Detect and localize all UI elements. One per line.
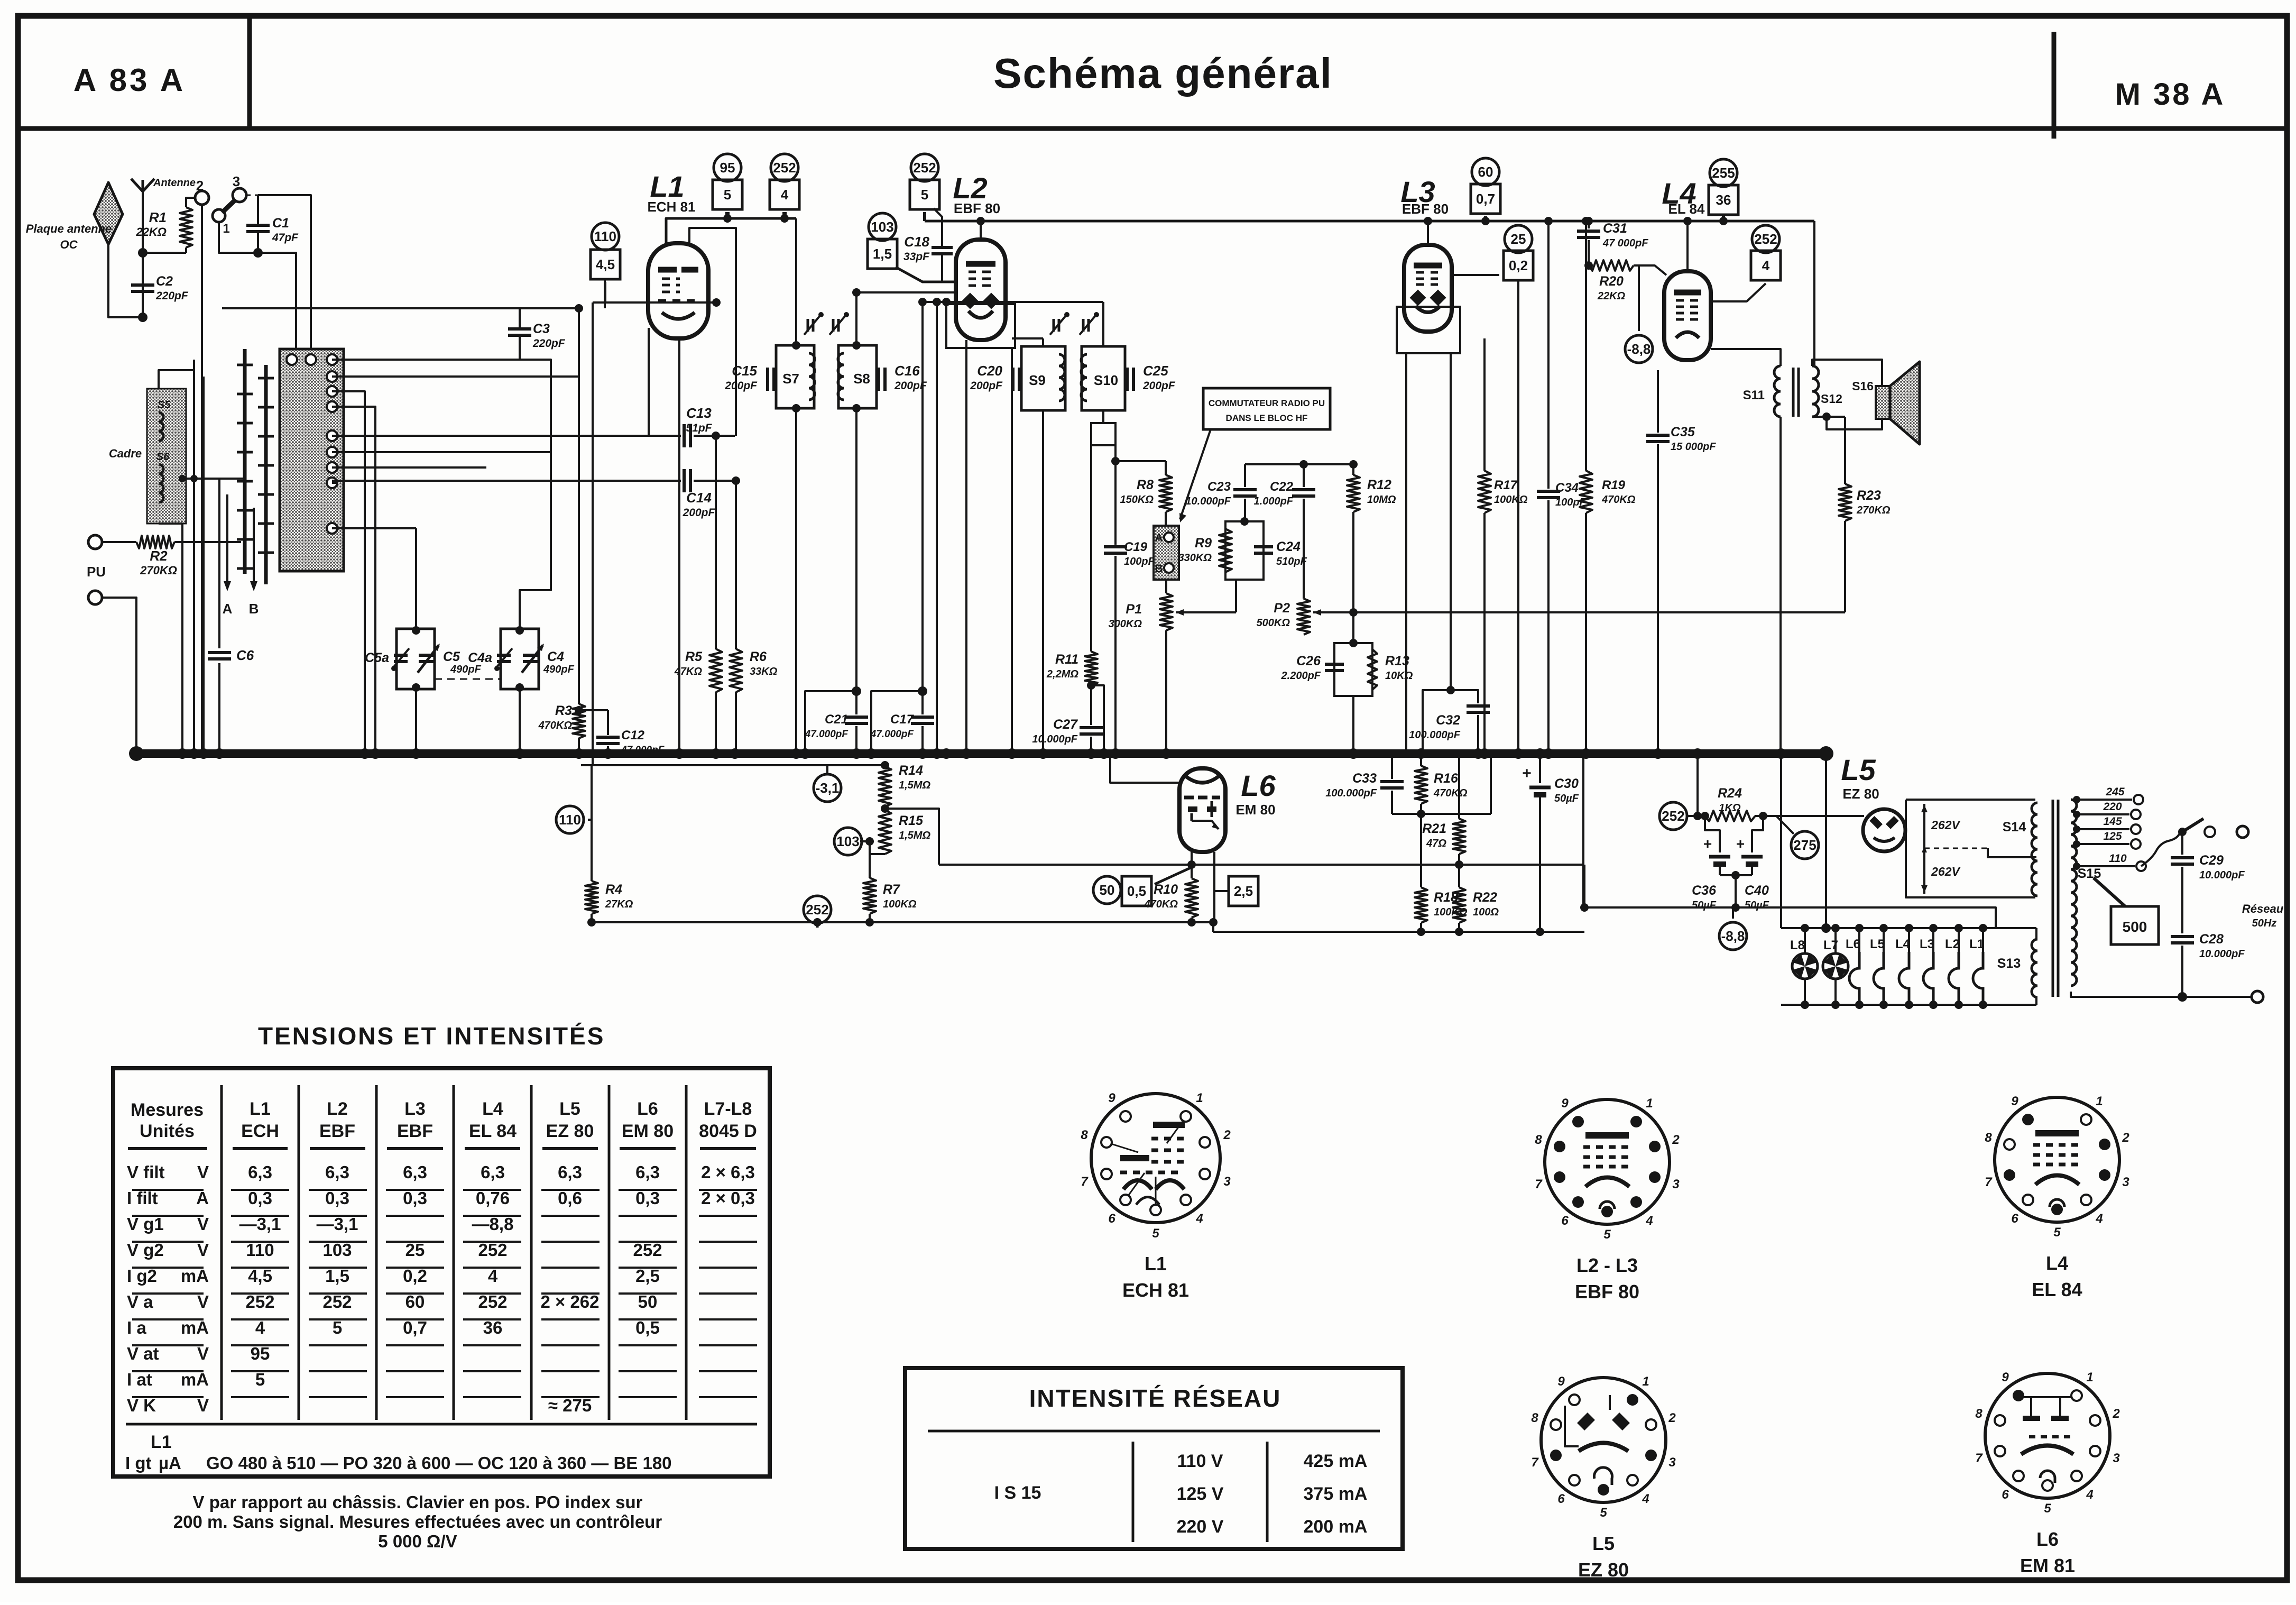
svg-text:EBF 80: EBF 80 xyxy=(1575,1281,1639,1303)
svg-text:0,2: 0,2 xyxy=(403,1266,427,1286)
svg-text:9: 9 xyxy=(1561,1096,1569,1111)
svg-text:6,3: 6,3 xyxy=(248,1162,272,1182)
svg-text:25: 25 xyxy=(405,1240,425,1260)
svg-text:V par rapport au châssis. Clav: V par rapport au châssis. Clavier en pos… xyxy=(193,1492,643,1512)
svg-text:C33: C33 xyxy=(1352,771,1377,786)
resistor R1 22K xyxy=(180,207,192,247)
svg-text:8: 8 xyxy=(1975,1407,1983,1421)
trimmer S9 xyxy=(1053,319,1055,332)
wire S10 bottom to detector loop xyxy=(1102,410,1104,423)
svg-text:27KΩ: 27KΩ xyxy=(605,898,633,910)
svg-text:103: 103 xyxy=(322,1240,352,1260)
svg-text:110: 110 xyxy=(246,1240,274,1260)
svg-text:500KΩ: 500KΩ xyxy=(1257,617,1290,629)
resistor R3 470K xyxy=(573,704,585,738)
svg-text:2,5: 2,5 xyxy=(635,1266,660,1286)
svg-text:60: 60 xyxy=(1478,164,1493,180)
svg-text:-8,8: -8,8 xyxy=(1627,341,1651,357)
svg-text:L8: L8 xyxy=(1790,938,1805,952)
wire speaker bottom xyxy=(1827,417,1882,429)
header divider left vertical xyxy=(247,18,252,127)
tube L2 EBF 80 xyxy=(956,240,1006,340)
wire osc to C4 box xyxy=(520,360,551,629)
svg-text:1.000pF: 1.000pF xyxy=(1254,496,1294,507)
wire plaque antenne down xyxy=(108,244,143,317)
capacitor C31 47.000pF xyxy=(1588,221,1590,228)
svg-text:L5: L5 xyxy=(1592,1533,1615,1554)
wire L6 anode from bus region xyxy=(1110,754,1179,783)
circled -8,8 (bias tap) xyxy=(1732,907,1734,919)
svg-text:I gt: I gt xyxy=(125,1453,151,1473)
svg-text:L1: L1 xyxy=(650,170,684,203)
svg-text:1: 1 xyxy=(1196,1091,1203,1105)
wires cadre box to bus xyxy=(181,524,183,754)
svg-text:9: 9 xyxy=(2002,1370,2009,1384)
svg-text:C32: C32 xyxy=(1436,713,1460,728)
svg-text:252: 252 xyxy=(322,1292,352,1311)
svg-text:10KΩ: 10KΩ xyxy=(1385,670,1413,682)
capacitor C17 47.000pF loop xyxy=(871,691,923,754)
heater hooks L6..L1 xyxy=(1849,952,1859,1005)
resistor R21 47ohm xyxy=(1458,754,1460,819)
svg-text:1: 1 xyxy=(1642,1374,1649,1389)
svg-text:S5: S5 xyxy=(158,399,171,411)
wire S7 bottom to bus xyxy=(795,408,797,754)
svg-text:R12: R12 xyxy=(1367,478,1391,492)
circled 103 (bias) xyxy=(834,828,862,855)
wire grid2 x1227 xyxy=(648,328,650,436)
svg-text:47pF: 47pF xyxy=(272,232,299,244)
svg-text:Plaque antenne: Plaque antenne xyxy=(26,222,112,235)
svg-text:R23: R23 xyxy=(1857,488,1881,503)
trimmer S10 xyxy=(1082,319,1085,332)
svg-text:L5: L5 xyxy=(1870,937,1885,951)
svg-text:EM 80: EM 80 xyxy=(622,1121,674,1141)
wire 36 down to rail xyxy=(1722,216,1725,221)
capacitor C2 220pF xyxy=(131,283,154,287)
resistor R20 22K xyxy=(1589,260,1634,271)
capacitor C32 100.000pF loop xyxy=(1423,690,1478,754)
svg-text:C5: C5 xyxy=(443,649,460,664)
box C26 2.200pF with R13 10K xyxy=(1334,643,1372,696)
svg-text:L2 - L3: L2 - L3 xyxy=(1576,1254,1638,1276)
wire C5 box stubs xyxy=(415,528,417,629)
svg-text:EBF 80: EBF 80 xyxy=(1402,201,1449,217)
circled 25 xyxy=(1505,225,1532,253)
capacitor C35 15.000pF xyxy=(1657,370,1659,433)
svg-text:C35: C35 xyxy=(1671,425,1695,439)
svg-text:S15: S15 xyxy=(2078,866,2101,881)
svg-text:200 mA: 200 mA xyxy=(1304,1517,1368,1537)
wire keyboard horizontals xyxy=(186,478,245,480)
resistor R11 2,2M xyxy=(1090,445,1092,652)
capacitor C6 xyxy=(218,478,220,648)
box 0,7 xyxy=(1471,184,1500,214)
circled -3,1 xyxy=(826,765,828,774)
svg-text:100KΩ: 100KΩ xyxy=(883,898,917,910)
capacitor C34 100pF xyxy=(1547,221,1550,489)
svg-text:10.000pF: 10.000pF xyxy=(1185,496,1231,507)
wire S9 bottom to bus xyxy=(1042,410,1044,754)
svg-text:C28: C28 xyxy=(2199,932,2224,947)
svg-text:510pF: 510pF xyxy=(1276,556,1307,567)
svg-text:1: 1 xyxy=(2096,1094,2103,1108)
tube L5 EZ 80 rectifier xyxy=(1863,809,1905,851)
svg-text:L6: L6 xyxy=(1846,937,1860,951)
svg-text:L1: L1 xyxy=(1969,937,1984,951)
svg-text:C21: C21 xyxy=(825,712,848,727)
svg-text:L1: L1 xyxy=(1145,1253,1167,1274)
dial lamp rail bottom xyxy=(1781,1004,2036,1006)
capacitor C28 10.000pF xyxy=(2171,935,2194,938)
resistor R8 150K xyxy=(1165,461,1167,475)
svg-text:10.000pF: 10.000pF xyxy=(2199,948,2245,960)
svg-text:S13: S13 xyxy=(1997,956,2021,971)
svg-text:5: 5 xyxy=(333,1318,342,1337)
wire L2 box bottom xyxy=(946,304,1015,348)
svg-text:110 V: 110 V xyxy=(1177,1451,1223,1471)
svg-text:L4: L4 xyxy=(2046,1252,2068,1274)
S14 winding xyxy=(2032,803,2037,896)
svg-text:L3: L3 xyxy=(1920,937,1934,951)
table intensite column lines xyxy=(1132,1442,1135,1542)
svg-text:4: 4 xyxy=(1195,1212,1203,1226)
svg-text:100KΩ: 100KΩ xyxy=(1494,494,1528,506)
tube socket L5 EZ80 xyxy=(1541,1378,1666,1502)
svg-text:C17: C17 xyxy=(890,712,915,727)
wire x1506 anode to S7 xyxy=(795,218,797,345)
wire keyboard row 712 xyxy=(332,375,579,378)
svg-text:5: 5 xyxy=(1152,1226,1159,1241)
svg-text:4: 4 xyxy=(1645,1214,1653,1228)
svg-text:S6: S6 xyxy=(156,451,170,463)
circled 255 xyxy=(1710,159,1737,187)
svg-text:I at: I at xyxy=(127,1370,152,1389)
wire keyboard row 913 to C14 xyxy=(332,480,681,482)
svg-text:10.000pF: 10.000pF xyxy=(1032,733,1077,745)
svg-text:L6: L6 xyxy=(2036,1528,2059,1550)
svg-text:A 83 A: A 83 A xyxy=(73,62,186,98)
tube L1 ECH 81 xyxy=(648,243,708,338)
svg-text:0,3: 0,3 xyxy=(403,1188,427,1208)
svg-text:7: 7 xyxy=(1975,1451,1983,1465)
svg-text:5: 5 xyxy=(2044,1501,2051,1516)
capacitor C33 100.000pF xyxy=(1391,754,1393,779)
svg-text:50µF: 50µF xyxy=(1692,900,1717,911)
svg-text:EL 84: EL 84 xyxy=(469,1121,517,1141)
output transformer S12 winding xyxy=(1812,366,1819,417)
wire y872 detector rail xyxy=(1115,460,1166,462)
header divider horizontal xyxy=(18,126,2287,131)
wire L6 cathode legs xyxy=(1191,852,1193,878)
svg-text:C20: C20 xyxy=(977,363,1002,379)
wire S12 to speaker xyxy=(1812,360,1882,386)
wire L3 anode to rail xyxy=(1427,221,1429,245)
svg-text:A: A xyxy=(223,601,233,617)
svg-text:6: 6 xyxy=(2011,1212,2018,1226)
svg-text:5: 5 xyxy=(255,1370,265,1389)
svg-text:8: 8 xyxy=(1531,1411,1538,1425)
capacitor C15 200pF xyxy=(766,368,769,391)
keyboard contact rail right xyxy=(264,365,268,584)
resistor R18 100K xyxy=(1420,814,1422,887)
svg-text:490pF: 490pF xyxy=(450,664,482,675)
circled -8,8 (L4 grid bias) xyxy=(1625,335,1653,363)
svg-text:1,5: 1,5 xyxy=(873,246,892,262)
svg-text:L1: L1 xyxy=(250,1099,271,1119)
svg-text:—3,1: —3,1 xyxy=(317,1214,358,1234)
svg-text:110: 110 xyxy=(2109,852,2127,865)
box R9 330K with C24 510pF xyxy=(1225,521,1264,580)
wire y1744 to y1762 continuation xyxy=(1212,922,1214,932)
svg-text:C29: C29 xyxy=(2199,853,2224,868)
wire heater return y1744 xyxy=(592,921,1213,923)
svg-text:200pF: 200pF xyxy=(683,507,716,519)
svg-text:1,5MΩ: 1,5MΩ xyxy=(899,779,930,791)
svg-text:2: 2 xyxy=(2122,1131,2129,1145)
svg-text:6: 6 xyxy=(1561,1214,1569,1228)
svg-text:1: 1 xyxy=(2086,1370,2093,1384)
svg-text:A: A xyxy=(1155,532,1163,544)
wire bus drop x3211 xyxy=(1696,754,1699,816)
svg-text:S14: S14 xyxy=(2003,820,2026,834)
svg-text:B: B xyxy=(249,601,259,617)
svg-text:4: 4 xyxy=(255,1318,265,1337)
resistor R14 1,5M xyxy=(881,761,889,769)
wire PU terminal upper xyxy=(88,535,102,549)
svg-text:R2: R2 xyxy=(150,548,168,564)
capacitor C13 51pF xyxy=(683,424,686,447)
svg-text:-3,1: -3,1 xyxy=(816,780,840,796)
circled 60 xyxy=(1472,158,1499,186)
svg-text:0,7: 0,7 xyxy=(403,1318,427,1337)
svg-text:C3: C3 xyxy=(533,322,550,336)
circled 103 xyxy=(869,213,896,241)
svg-text:2,5: 2,5 xyxy=(1234,883,1253,899)
wire y1635 grid line xyxy=(1187,860,1196,869)
mains switch xyxy=(2178,828,2187,836)
svg-text:51pF: 51pF xyxy=(686,422,712,434)
svg-text:470KΩ: 470KΩ xyxy=(538,720,573,731)
wire L1 cathode down xyxy=(678,338,680,754)
svg-text:S16: S16 xyxy=(1852,379,1874,393)
svg-text:125: 125 xyxy=(2103,830,2122,842)
svg-text:mA: mA xyxy=(181,1266,209,1286)
resistor R6 33K xyxy=(735,481,737,649)
svg-text:15 000pF: 15 000pF xyxy=(1671,441,1716,453)
svg-text:OC: OC xyxy=(60,238,78,251)
wire L2 verticals to bus xyxy=(936,302,938,754)
box 4 xyxy=(770,180,799,209)
svg-text:1,5: 1,5 xyxy=(325,1266,349,1286)
svg-text:C5a: C5a xyxy=(365,650,389,665)
svg-text:200 m. Sans signal. Mesures ef: 200 m. Sans signal. Mesures effectuées a… xyxy=(173,1512,662,1531)
svg-text:6,3: 6,3 xyxy=(325,1162,349,1182)
svg-text:7: 7 xyxy=(1535,1177,1543,1191)
svg-text:6,3: 6,3 xyxy=(403,1162,427,1182)
svg-text:PU: PU xyxy=(87,564,106,580)
capacitor C22 1.000pF xyxy=(1303,464,1305,487)
svg-text:C23: C23 xyxy=(1207,480,1231,494)
wire 4 to L4 screen xyxy=(1712,300,1747,302)
wire keyboard row 855 long xyxy=(332,451,551,453)
svg-text:L6: L6 xyxy=(1241,769,1276,802)
svg-text:EM 80: EM 80 xyxy=(1235,802,1275,818)
circled 275 xyxy=(1791,831,1819,859)
svg-text:V: V xyxy=(197,1396,209,1415)
svg-text:Cadre: Cadre xyxy=(109,447,142,460)
wire keyboard row 740 xyxy=(332,391,365,754)
wire C1 node right and down to keyboard xyxy=(258,253,296,360)
wire keyboard row 824 to C13 xyxy=(332,435,681,437)
wire 0,2 to L3 grid xyxy=(1452,274,1499,276)
wire B arrow xyxy=(253,508,255,586)
wire keyboard 913 stub xyxy=(332,482,338,484)
svg-text:4: 4 xyxy=(488,1266,498,1286)
svg-text:470KΩ: 470KΩ xyxy=(1433,787,1468,799)
wire R1 top to contact 2 xyxy=(186,198,195,207)
wire 0,5 diagonal xyxy=(1155,867,1192,884)
svg-text:5: 5 xyxy=(921,187,928,203)
svg-text:C18: C18 xyxy=(904,234,929,250)
svg-text:2: 2 xyxy=(2112,1407,2120,1421)
svg-text:4,5: 4,5 xyxy=(596,256,615,272)
svg-text:+: + xyxy=(1522,765,1532,782)
svg-text:Unités: Unités xyxy=(140,1121,195,1141)
wire y1716 return xyxy=(1583,907,1996,928)
svg-text:150KΩ: 150KΩ xyxy=(1120,494,1154,506)
svg-text:22KΩ: 22KΩ xyxy=(1597,290,1626,302)
svg-text:50µF: 50µF xyxy=(1745,900,1769,911)
capacitor C19 100pF xyxy=(1114,461,1117,545)
table intensite title underline xyxy=(928,1430,1380,1433)
svg-text:103: 103 xyxy=(836,833,859,849)
box 5 xyxy=(713,180,742,209)
svg-text:200pF: 200pF xyxy=(970,380,1003,392)
wire bus drop x2995 xyxy=(1582,754,1584,907)
IF transformer S8 box xyxy=(838,345,877,408)
HT secondary box S14 xyxy=(1906,799,2035,801)
svg-text:4: 4 xyxy=(1762,258,1770,273)
IF transformer S10 box xyxy=(1082,346,1125,410)
resistor R17 100K xyxy=(1483,338,1486,471)
svg-text:R6: R6 xyxy=(750,649,767,664)
svg-text:+: + xyxy=(1736,836,1745,852)
wire antenna mast xyxy=(142,191,144,317)
svg-text:47Ω: 47Ω xyxy=(1426,838,1446,849)
wire keyboard row 999 to C5 box xyxy=(332,527,416,529)
svg-text:COMMUTATEUR RADIO PU: COMMUTATEUR RADIO PU xyxy=(1209,398,1325,408)
resistor R16 470K xyxy=(1415,766,1427,804)
circled 95 xyxy=(714,154,741,181)
svg-text:2: 2 xyxy=(196,178,204,194)
svg-text:R4: R4 xyxy=(605,882,622,897)
svg-text:7: 7 xyxy=(1531,1455,1539,1470)
table tensions header underlines xyxy=(128,1147,207,1150)
wire contact1 down to C1 bottom rail xyxy=(219,222,258,253)
svg-text:V g2: V g2 xyxy=(127,1240,164,1260)
svg-text:P2: P2 xyxy=(1274,601,1290,616)
wire keyboard row 884 xyxy=(332,466,486,469)
svg-text:R3: R3 xyxy=(555,703,572,718)
wire C17 branch xyxy=(921,302,924,691)
wire y571 distribution xyxy=(925,301,1103,303)
wire S11 top from L4 cathode region xyxy=(1711,349,1781,366)
wire keyboard row 680 to C3 xyxy=(332,359,520,361)
box 36 xyxy=(1709,185,1738,215)
svg-text:INTENSITÉ RÉSEAU: INTENSITÉ RÉSEAU xyxy=(1029,1384,1281,1412)
keyboard block terminals xyxy=(327,354,337,365)
svg-text:3: 3 xyxy=(1223,1175,1231,1189)
resistor R10 470K xyxy=(1185,878,1198,918)
svg-text:6,3: 6,3 xyxy=(558,1162,582,1182)
svg-text:C27: C27 xyxy=(1053,717,1078,732)
wire bus end vertical xyxy=(1825,754,1827,928)
wire L1 second anode xyxy=(689,228,736,436)
svg-text:252: 252 xyxy=(245,1292,274,1311)
wire C1 top right and down xyxy=(258,195,311,355)
svg-text:9: 9 xyxy=(2011,1094,2018,1108)
wire cadre top link xyxy=(159,370,194,389)
box 4 (L4) xyxy=(1751,251,1781,280)
resistor R23 270K xyxy=(1844,417,1846,484)
wire C36/C40 common to return xyxy=(1720,874,1752,876)
svg-text:375 mA: 375 mA xyxy=(1304,1484,1368,1504)
svg-text:V at: V at xyxy=(127,1344,159,1363)
lamp L7 xyxy=(1834,928,1837,953)
svg-text:2: 2 xyxy=(1668,1411,1676,1425)
svg-text:M 38 A: M 38 A xyxy=(2115,77,2226,112)
svg-text:R19: R19 xyxy=(1602,478,1626,492)
svg-text:≈ 275: ≈ 275 xyxy=(548,1396,592,1415)
svg-text:R7: R7 xyxy=(883,882,900,897)
svg-text:R9: R9 xyxy=(1195,536,1212,551)
svg-text:4: 4 xyxy=(781,187,789,203)
svg-text:P1: P1 xyxy=(1126,602,1142,617)
svg-text:R21: R21 xyxy=(1422,821,1446,836)
svg-text:3: 3 xyxy=(2113,1451,2120,1465)
svg-text:V g1: V g1 xyxy=(127,1214,164,1234)
svg-text:EBF: EBF xyxy=(397,1121,433,1141)
svg-text:R20: R20 xyxy=(1599,274,1624,289)
svg-text:V: V xyxy=(197,1240,209,1260)
wire detector feed diagonal xyxy=(1114,445,1117,461)
svg-text:—8,8: —8,8 xyxy=(472,1214,514,1234)
svg-text:300KΩ: 300KΩ xyxy=(1109,618,1142,630)
svg-text:1KΩ: 1KΩ xyxy=(1719,802,1741,814)
svg-text:Réseau: Réseau xyxy=(2242,902,2284,915)
vertical x1095 to R3 xyxy=(578,308,580,704)
svg-text:50µF: 50µF xyxy=(1554,793,1579,804)
svg-text:125 V: 125 V xyxy=(1177,1484,1224,1504)
svg-text:A: A xyxy=(196,1188,209,1208)
svg-text:5 000 Ω/V: 5 000 Ω/V xyxy=(378,1531,457,1551)
svg-text:S11: S11 xyxy=(1743,388,1765,402)
chassis ground bus (thick) xyxy=(135,749,1827,758)
svg-text:DANS LE BLOC HF: DANS LE BLOC HF xyxy=(1226,413,1308,423)
circled 50 xyxy=(1093,876,1121,904)
svg-text:TENSIONS ET INTENSITÉS: TENSIONS ET INTENSITÉS xyxy=(258,1022,605,1050)
output transformer S11 winding xyxy=(1774,366,1781,417)
svg-text:2,2MΩ: 2,2MΩ xyxy=(1046,668,1078,680)
svg-text:EZ 80: EZ 80 xyxy=(1842,786,1879,802)
resistor R15 1,5M xyxy=(879,810,891,854)
svg-text:4: 4 xyxy=(2086,1488,2093,1502)
capacitor C25 200pF xyxy=(1126,368,1129,391)
svg-text:145: 145 xyxy=(2103,815,2122,828)
capacitor C36 50uF xyxy=(1705,816,1720,852)
svg-text:22KΩ: 22KΩ xyxy=(135,225,167,239)
